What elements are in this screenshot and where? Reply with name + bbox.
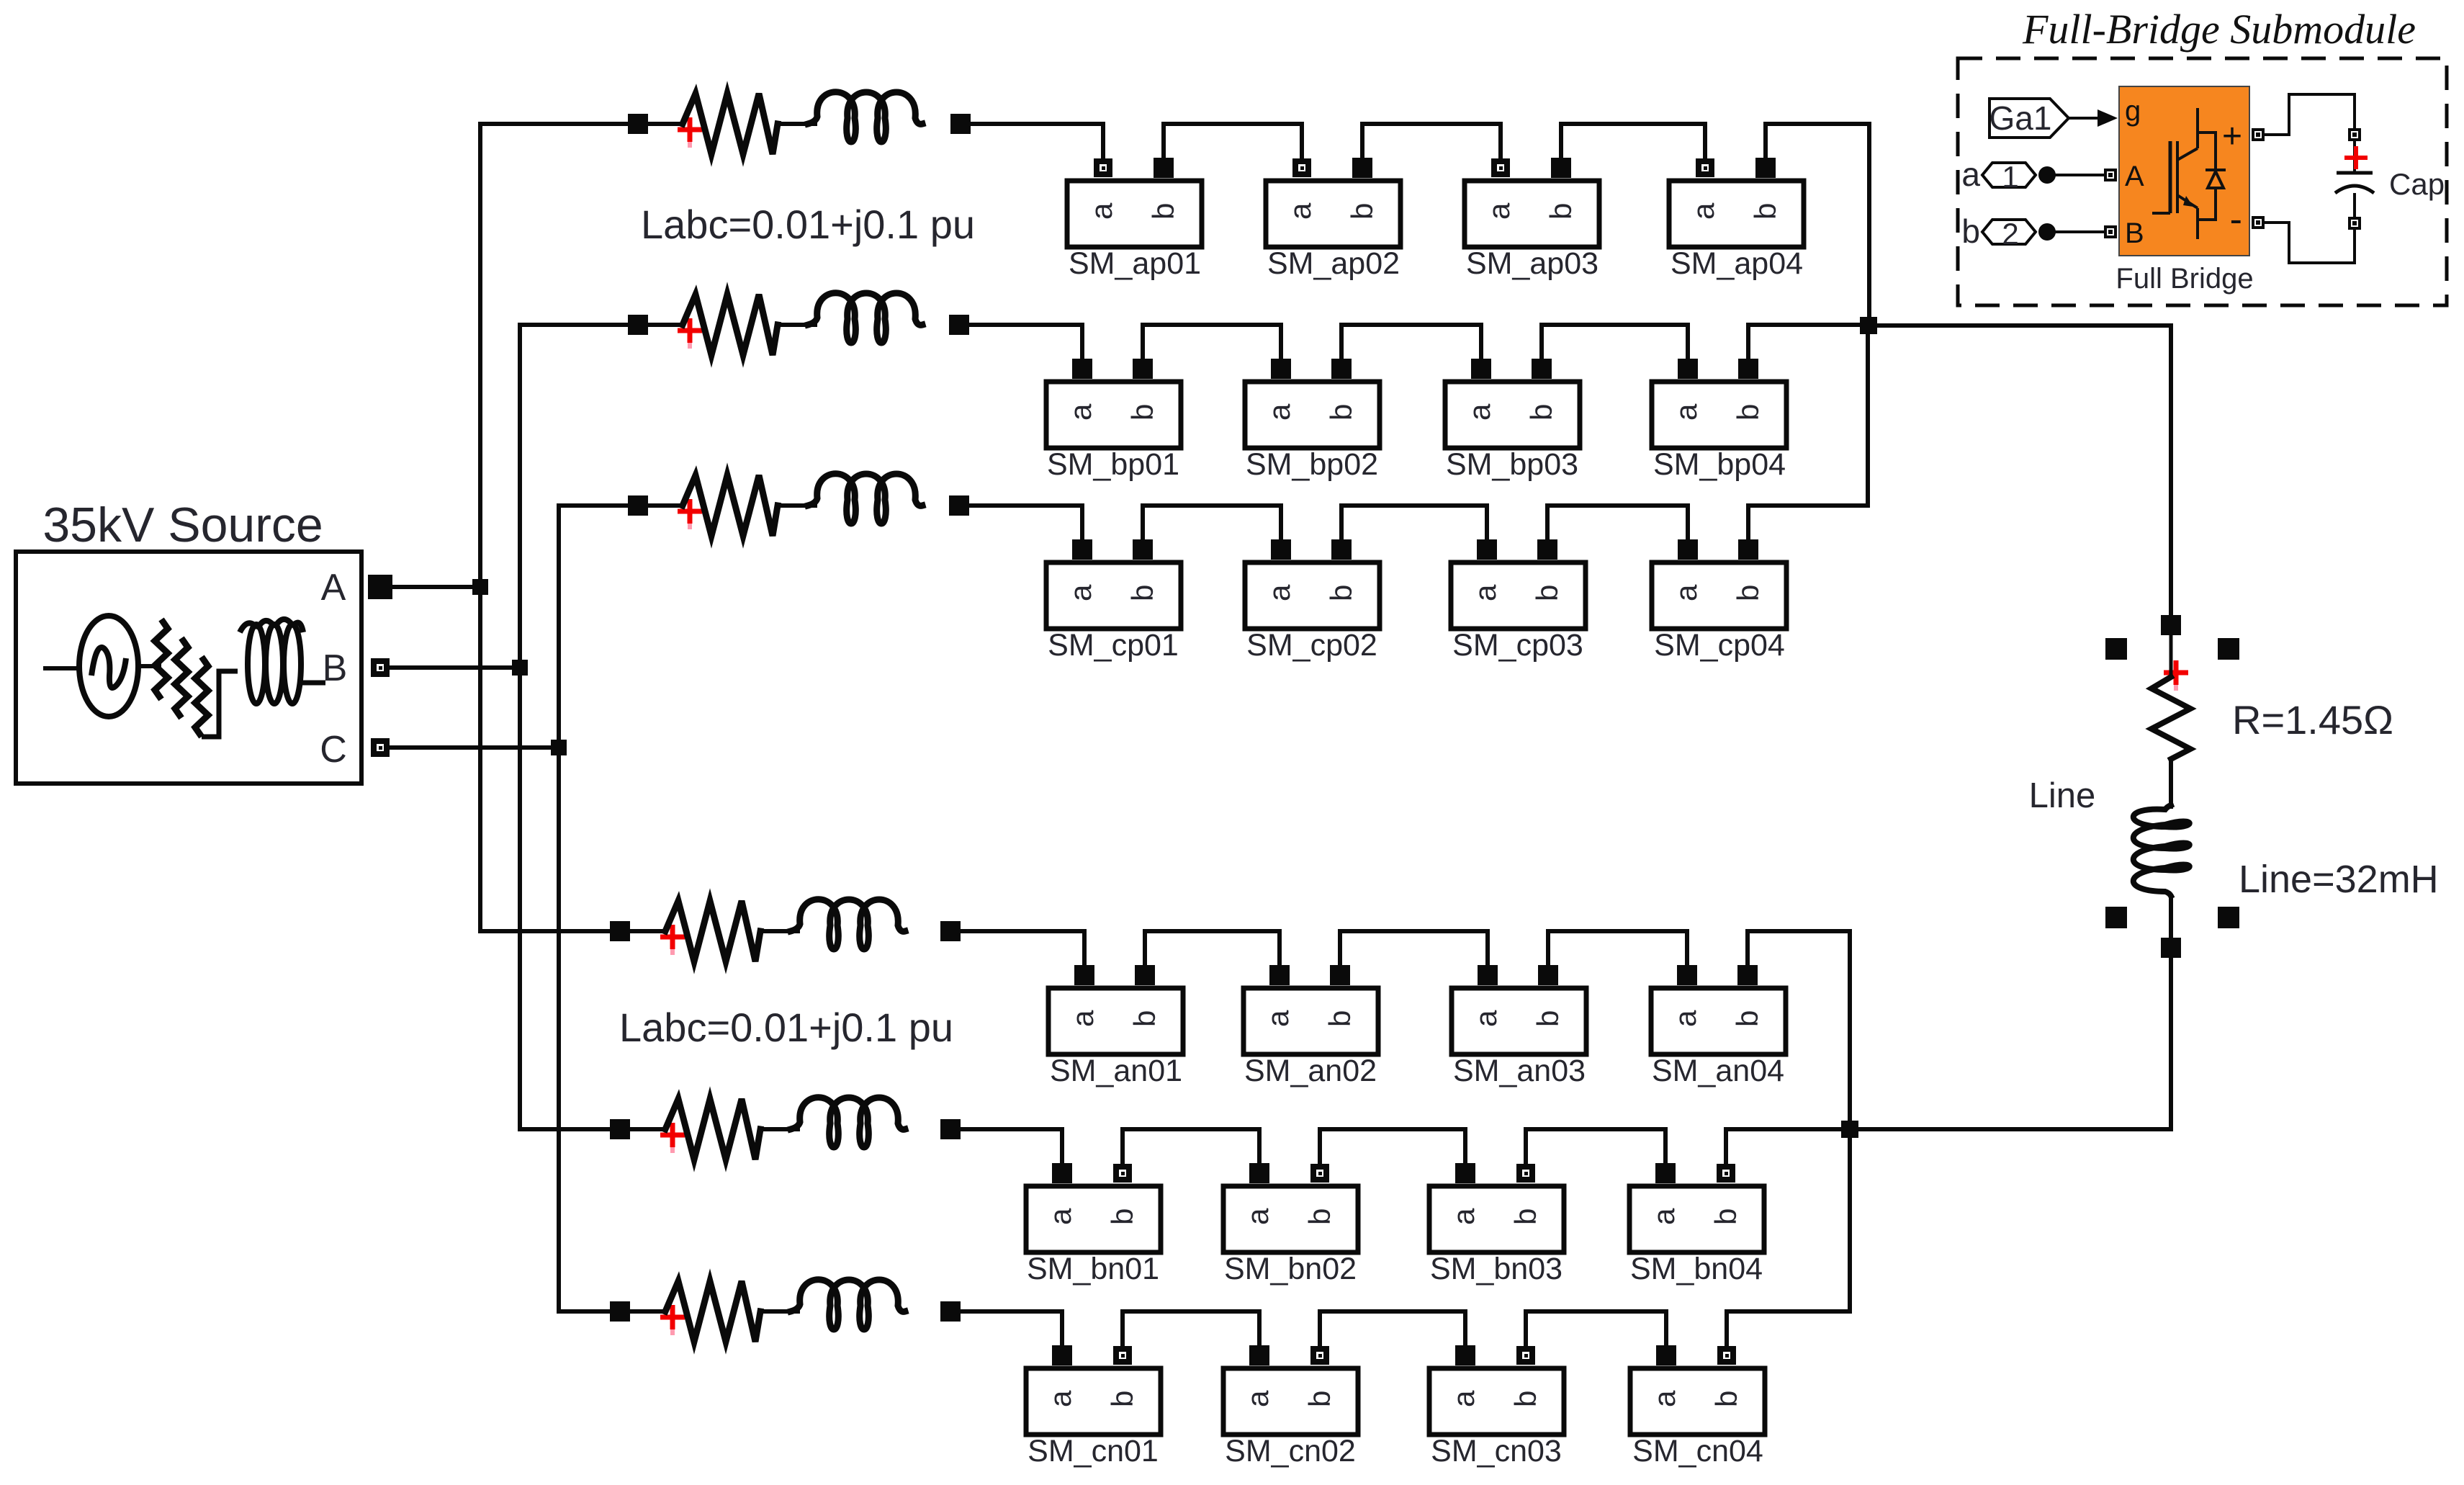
arm bn right port xyxy=(940,1119,961,1139)
svg-text:b: b xyxy=(1125,404,1159,421)
U1 pin label A xyxy=(2125,161,2144,192)
wire arm cn port to resistor xyxy=(630,1309,665,1314)
svg-text:b: b xyxy=(1105,1391,1139,1407)
svg-text:b: b xyxy=(1709,1391,1743,1407)
submodule SM_an01 xyxy=(1048,965,1183,1088)
arm an right port xyxy=(940,921,961,941)
svg-text:b: b xyxy=(1125,585,1159,601)
source internal resistor (3-phase) xyxy=(154,619,238,737)
submodule SM_ap02 xyxy=(1266,158,1400,281)
svg-text:b: b xyxy=(1530,585,1564,601)
wire SM_cn01 to SM_cn02 xyxy=(1123,1311,1259,1346)
svg-text:a: a xyxy=(1066,1010,1100,1027)
wire arm ap to ap01 input xyxy=(971,124,1103,158)
arm ap left port xyxy=(628,114,648,134)
svg-text:b: b xyxy=(1531,1010,1565,1027)
resistor Rarm_bn xyxy=(665,1099,760,1159)
inductor Larm_bn xyxy=(791,1098,905,1147)
svg-text:b: b xyxy=(1323,1010,1357,1027)
source port A handle xyxy=(368,575,392,599)
node bottom collector junction xyxy=(1841,1121,1858,1138)
wire arm an chain to bottom node xyxy=(1748,931,1850,1129)
svg-text:B: B xyxy=(2125,217,2144,249)
wire arm cn R to L xyxy=(760,1309,798,1314)
svg-text:a: a xyxy=(1064,403,1097,421)
wire arm ap chain to top node xyxy=(1766,124,1869,326)
submodule SM_bn04 xyxy=(1629,1163,1764,1286)
wire a to A xyxy=(2056,174,2104,176)
svg-text:SM_bp02: SM_bp02 xyxy=(1246,447,1378,482)
wire Ga1 to g with arrow xyxy=(2069,109,2118,127)
svg-text:SM_an04: SM_an04 xyxy=(1652,1054,1784,1088)
submodule SM_ap03 xyxy=(1465,158,1599,281)
svg-text:b: b xyxy=(1544,203,1578,220)
value label R=1.45 xyxy=(2232,697,2393,742)
arm ap right port xyxy=(950,114,971,134)
wire SM_cn02 to SM_cn03 xyxy=(1320,1311,1465,1346)
svg-text:b: b xyxy=(1324,404,1358,421)
svg-text:b: b xyxy=(1748,203,1782,220)
svg-text:a: a xyxy=(1961,156,1980,193)
svg-text:-: - xyxy=(2230,199,2242,241)
source internal inductor (3-phase) xyxy=(240,619,325,704)
U1 pin label B xyxy=(2125,217,2144,249)
wire feeder to arm ap xyxy=(480,122,628,126)
orange B port square xyxy=(2105,227,2115,237)
svg-text:b: b xyxy=(1345,203,1379,220)
svg-text:SM_cp04: SM_cp04 xyxy=(1654,628,1785,663)
wire arm cp chain to top node xyxy=(1748,326,1868,540)
svg-text:SM_cp03: SM_cp03 xyxy=(1452,628,1583,663)
node phase B junction xyxy=(512,660,528,676)
arm cn left port xyxy=(610,1301,630,1322)
svg-text:SM_bn02: SM_bn02 xyxy=(1224,1252,1357,1286)
submodule SM_cn01 xyxy=(1026,1345,1161,1468)
svg-text:SM_bp03: SM_bp03 xyxy=(1446,447,1578,482)
submodule SM_cp03 xyxy=(1451,539,1586,663)
wire arm ap R to L xyxy=(778,122,815,126)
submodule SM_bp04 xyxy=(1652,359,1786,482)
polarity mark arm bp xyxy=(678,318,702,349)
full bridge block U1 (orange) xyxy=(2119,86,2249,256)
node top collector junction xyxy=(1860,317,1877,334)
wire feeder to arm bn xyxy=(520,1127,610,1131)
svg-text:a: a xyxy=(1064,584,1097,601)
submodule SM_cp01 xyxy=(1046,539,1181,663)
Cap top port square xyxy=(2350,130,2360,140)
svg-text:A: A xyxy=(321,567,346,609)
wire arm an to an01 input xyxy=(961,931,1084,966)
svg-text:b: b xyxy=(1730,1010,1764,1027)
wire feeder to arm cp xyxy=(559,503,628,508)
wire SM_an01 to SM_an02 xyxy=(1145,931,1280,966)
svg-text:a: a xyxy=(1668,1010,1702,1027)
svg-text:SM_ap04: SM_ap04 xyxy=(1671,246,1803,281)
submodule SM_cp02 xyxy=(1245,539,1380,663)
inductor Larm_an xyxy=(791,899,905,949)
inductor Larm_bp xyxy=(808,293,922,343)
resistor Rarm_ap xyxy=(683,94,778,154)
Line selection handle top-left xyxy=(2105,638,2127,660)
svg-text:SM_bp01: SM_bp01 xyxy=(1047,447,1179,482)
svg-text:b: b xyxy=(1508,1208,1542,1225)
polarity mark arm an xyxy=(660,925,685,955)
wire SM_cp02 to SM_cp03 xyxy=(1341,506,1487,540)
svg-text:SM_cn03: SM_cn03 xyxy=(1431,1434,1562,1468)
wire phase A from source xyxy=(392,585,480,589)
svg-text:SM_bn01: SM_bn01 xyxy=(1027,1252,1159,1286)
wire arm cp to cp01 input xyxy=(969,506,1082,540)
inductor Larm_cp xyxy=(808,474,922,524)
svg-text:b: b xyxy=(1303,1391,1336,1407)
svg-text:SM_bp04: SM_bp04 xyxy=(1653,447,1786,482)
submodule SM_an03 xyxy=(1452,965,1586,1088)
svg-text:a: a xyxy=(1043,1208,1077,1225)
wire arm bp chain to top node xyxy=(1748,325,1869,359)
svg-text:a: a xyxy=(1469,1010,1503,1027)
wire arm ap port to resistor xyxy=(648,122,683,126)
AC source symbol (sine in circle) xyxy=(43,616,154,717)
wire SM_bn03 to SM_bn04 xyxy=(1526,1129,1665,1164)
svg-text:a: a xyxy=(1447,1390,1480,1407)
source port label B xyxy=(323,647,348,689)
inductor Larm_ap xyxy=(808,92,922,142)
svg-text:R=1.45Ω: R=1.45Ω xyxy=(2232,697,2393,742)
input port tag 1 (a) xyxy=(1961,156,2056,194)
wire SM_ap02 to SM_ap03 xyxy=(1362,124,1501,158)
svg-text:b: b xyxy=(1128,1010,1161,1027)
wire arm cp port to resistor xyxy=(648,503,683,508)
wire arm cn to cn01 input xyxy=(961,1311,1062,1346)
wire SM_bp01 to SM_bp02 xyxy=(1143,325,1281,359)
block label Full Bridge xyxy=(2115,263,2253,295)
node phase C junction xyxy=(551,740,567,755)
svg-text:a: a xyxy=(1283,202,1317,220)
svg-text:a: a xyxy=(1043,1390,1077,1407)
svg-text:Ga1: Ga1 xyxy=(1989,99,2052,137)
submodule SM_cn03 xyxy=(1429,1345,1564,1468)
svg-text:b: b xyxy=(1508,1391,1542,1407)
wire phase C from source xyxy=(390,745,559,750)
voltage source block 35kV Source label xyxy=(42,498,323,552)
svg-text:Line: Line xyxy=(2029,776,2096,815)
svg-text:SM_cp01: SM_cp01 xyxy=(1048,628,1179,663)
wire phase B from source xyxy=(390,665,520,670)
orange A port square xyxy=(2105,170,2115,180)
wire top node to Line xyxy=(1869,326,2171,615)
svg-text:35kV Source: 35kV Source xyxy=(42,498,323,552)
svg-text:a: a xyxy=(1462,403,1496,421)
polarity mark arm cn xyxy=(660,1305,685,1335)
wire SM_bn01 to SM_bn02 xyxy=(1123,1129,1259,1164)
wire Cap top lead xyxy=(2353,140,2356,171)
svg-text:SM_an02: SM_an02 xyxy=(1244,1054,1377,1088)
submodule SM_cp04 xyxy=(1652,539,1786,663)
U1 pin label minus xyxy=(2230,199,2242,241)
svg-text:SM_an01: SM_an01 xyxy=(1050,1054,1182,1088)
node phase A junction xyxy=(472,579,488,595)
arm cp right port xyxy=(949,495,969,516)
svg-text:SM_an03: SM_an03 xyxy=(1453,1054,1586,1088)
svg-text:b: b xyxy=(1961,212,1980,250)
source block outline xyxy=(16,552,361,784)
resistor Rarm_bp xyxy=(683,295,778,355)
Line selection handle bottom-right xyxy=(2218,907,2239,928)
source port label A xyxy=(321,567,346,609)
wire SM_an03 to SM_an04 xyxy=(1548,931,1687,966)
input port tag 2 (b) xyxy=(1961,212,2056,251)
svg-text:SM_ap01: SM_ap01 xyxy=(1069,246,1201,281)
svg-text:a: a xyxy=(1262,584,1296,601)
svg-text:b: b xyxy=(1731,404,1765,421)
U1 plus port square xyxy=(2253,130,2263,140)
svg-text:a: a xyxy=(1669,403,1703,421)
svg-text:a: a xyxy=(1647,1208,1681,1225)
svg-text:SM_cp02: SM_cp02 xyxy=(1246,628,1377,663)
value label Labc lower xyxy=(619,1005,953,1050)
arm cn right port xyxy=(940,1301,961,1322)
submodule SM_bn02 xyxy=(1223,1163,1358,1286)
Line selection handle bottom-left xyxy=(2105,907,2127,928)
svg-text:a: a xyxy=(1468,584,1502,601)
polarity mark arm bn xyxy=(660,1123,685,1153)
goto tag Ga1 xyxy=(1989,99,2069,138)
wire arm bn port to resistor xyxy=(630,1127,665,1131)
svg-text:a: a xyxy=(1447,1208,1480,1225)
wire U1 plus to Cap xyxy=(2263,94,2355,135)
svg-text:b: b xyxy=(1524,404,1558,421)
svg-text:SM_cn02: SM_cn02 xyxy=(1225,1434,1356,1468)
submodule SM_an04 xyxy=(1651,965,1786,1088)
svg-text:b: b xyxy=(1324,585,1358,601)
svg-text:Labc=0.01+j0.1 pu: Labc=0.01+j0.1 pu xyxy=(641,202,975,247)
resistor Rarm_an xyxy=(665,901,760,961)
svg-text:A: A xyxy=(2125,161,2144,192)
wire arm an port to resistor xyxy=(630,929,665,933)
value label Labc upper xyxy=(641,202,975,247)
source port C handle xyxy=(371,738,390,757)
wire feeder to arm an xyxy=(480,929,610,933)
wire arm bn chain to bottom node xyxy=(1726,1129,1850,1164)
wire arm cn chain to bottom node xyxy=(1727,1129,1850,1346)
wire arm cp R to L xyxy=(778,503,815,508)
inductor Larm_cn xyxy=(791,1280,905,1329)
svg-text:SM_bn04: SM_bn04 xyxy=(1630,1252,1763,1286)
source port B handle xyxy=(371,658,390,677)
wire arm bp port to resistor xyxy=(648,323,683,327)
source port label C xyxy=(320,729,347,771)
wire arm bn R to L xyxy=(760,1127,798,1131)
wire Line R to L xyxy=(2169,759,2173,807)
wire SM_bn02 to SM_bn03 xyxy=(1320,1129,1465,1164)
svg-text:2: 2 xyxy=(2002,217,2018,251)
wire b to B xyxy=(2056,230,2104,233)
arm an left port xyxy=(610,921,630,941)
svg-text:a: a xyxy=(1241,1390,1274,1407)
wire SM_ap01 to SM_ap02 xyxy=(1164,124,1302,158)
wire feeder to arm bp xyxy=(520,323,628,327)
submodule SM_cn04 xyxy=(1630,1345,1765,1468)
svg-text:Line=32mH: Line=32mH xyxy=(2239,858,2439,901)
wire arm bp R to L xyxy=(778,323,815,327)
svg-text:b: b xyxy=(1303,1208,1336,1225)
submodule SM_bn03 xyxy=(1429,1163,1564,1286)
svg-text:SM_ap02: SM_ap02 xyxy=(1267,246,1400,281)
wire SM_cp03 to SM_cp04 xyxy=(1547,506,1688,540)
inductor L_Line xyxy=(2133,805,2190,938)
svg-text:Full-Bridge Submodule: Full-Bridge Submodule xyxy=(2022,6,2416,53)
svg-text:1: 1 xyxy=(2002,160,2018,194)
wire phase C vertical bus xyxy=(557,506,561,1311)
svg-text:a: a xyxy=(1482,202,1516,220)
block label Line xyxy=(2029,776,2096,815)
svg-text:a: a xyxy=(1686,202,1720,220)
svg-text:b: b xyxy=(1731,585,1765,601)
wire SM_bp03 to SM_bp04 xyxy=(1542,325,1688,359)
wire phase A vertical bus xyxy=(478,124,482,931)
resistor Rarm_cn xyxy=(665,1281,760,1342)
svg-text:b: b xyxy=(1146,203,1180,220)
capacitor Cap xyxy=(2335,173,2374,218)
wire SM_an02 to SM_an03 xyxy=(1340,931,1488,966)
wire SM_cn03 to SM_cn04 xyxy=(1526,1311,1666,1346)
svg-text:b: b xyxy=(1105,1208,1139,1225)
resistor Rarm_cp xyxy=(683,475,778,536)
U1 minus port square xyxy=(2253,217,2263,228)
svg-text:SM_cn04: SM_cn04 xyxy=(1632,1434,1763,1468)
svg-text:a: a xyxy=(1241,1208,1274,1225)
polarity mark Line xyxy=(2164,660,2188,691)
svg-text:+: + xyxy=(2222,117,2242,156)
svg-text:g: g xyxy=(2125,95,2141,127)
submodule SM_cn02 xyxy=(1223,1345,1358,1468)
svg-text:b: b xyxy=(1709,1208,1743,1225)
Line block top port xyxy=(2161,615,2181,635)
IGBT and diode icon inside U1 xyxy=(2152,108,2226,239)
arm bp right port xyxy=(949,315,969,335)
arm bp left port xyxy=(628,315,648,335)
svg-text:C: C xyxy=(320,729,347,771)
svg-text:SM_bn03: SM_bn03 xyxy=(1430,1252,1563,1286)
wire feeder to arm cn xyxy=(559,1309,610,1314)
polarity mark Cap xyxy=(2344,146,2368,169)
value label Line=32mH xyxy=(2239,858,2439,901)
submodule SM_bp03 xyxy=(1445,359,1580,482)
U1 pin label g xyxy=(2125,95,2141,127)
svg-text:a: a xyxy=(1261,1010,1295,1027)
polarity mark arm cp xyxy=(678,499,702,529)
wire arm an R to L xyxy=(760,929,798,933)
wire SM_cp01 to SM_cp02 xyxy=(1143,506,1281,540)
wire bottom node to Line xyxy=(1850,958,2171,1129)
submodule SM_bn01 xyxy=(1026,1163,1161,1286)
svg-text:Cap: Cap xyxy=(2389,167,2445,201)
inset title Full-Bridge Submodule xyxy=(2022,6,2416,53)
svg-text:a: a xyxy=(1669,584,1703,601)
wire arm bp to bp01 input xyxy=(969,325,1082,359)
U1 pin label plus xyxy=(2222,117,2242,156)
wire SM_bp02 to SM_bp03 xyxy=(1341,325,1481,359)
label Cap xyxy=(2389,167,2445,201)
wire U1 minus to Cap xyxy=(2263,223,2355,263)
svg-text:Labc=0.01+j0.1 pu: Labc=0.01+j0.1 pu xyxy=(619,1005,953,1050)
wire SM_ap03 to SM_ap04 xyxy=(1561,124,1705,158)
svg-text:a: a xyxy=(1262,403,1296,421)
arm cp left port xyxy=(628,495,648,516)
svg-text:Full Bridge: Full Bridge xyxy=(2115,263,2253,295)
wire arm bn to bn01 input xyxy=(961,1129,1062,1164)
Line selection handle top-right xyxy=(2218,638,2239,660)
submodule SM_ap01 xyxy=(1067,158,1202,281)
Line block bottom port xyxy=(2161,938,2181,958)
svg-text:a: a xyxy=(1647,1390,1681,1407)
submodule SM_bp02 xyxy=(1245,359,1380,482)
svg-text:SM_ap03: SM_ap03 xyxy=(1466,246,1599,281)
svg-text:SM_cn01: SM_cn01 xyxy=(1028,1434,1159,1468)
svg-text:a: a xyxy=(1084,202,1118,220)
submodule SM_an02 xyxy=(1244,965,1378,1088)
submodule SM_bp01 xyxy=(1046,359,1181,482)
svg-text:B: B xyxy=(323,647,348,689)
wire phase B vertical bus xyxy=(518,325,522,1129)
inset dashed border xyxy=(1958,58,2447,305)
polarity mark arm ap xyxy=(678,117,702,148)
submodule SM_ap04 xyxy=(1669,158,1804,281)
resistor R_Line xyxy=(2151,635,2190,759)
arm bn left port xyxy=(610,1119,630,1139)
Cap bottom port square xyxy=(2350,218,2360,228)
